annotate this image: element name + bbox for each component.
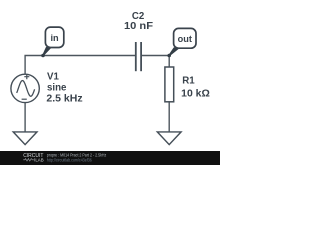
footer logo resistor squiggle xyxy=(23,158,34,161)
svg-text:10 kΩ: 10 kΩ xyxy=(181,88,210,99)
wire junction to R1 top xyxy=(168,56,170,68)
svg-text:sine: sine xyxy=(47,83,67,94)
svg-text:in: in xyxy=(51,33,60,43)
ground left xyxy=(13,132,37,145)
resistor R1 : body xyxy=(165,67,174,102)
voltage source V1 : minus sign xyxy=(22,98,27,100)
svg-text:V1: V1 xyxy=(47,71,59,82)
node out : flag pointer xyxy=(169,48,178,55)
svg-text:2.5 kHz: 2.5 kHz xyxy=(46,94,82,105)
wire top horizontal from V1 to C2 left plate xyxy=(25,56,135,75)
capacitor C2 : right plate xyxy=(140,42,142,71)
voltage source V1 : circle xyxy=(11,74,39,102)
ground right xyxy=(157,132,181,145)
wire V1 bottom to left ground xyxy=(24,103,26,132)
svg-text:LAB: LAB xyxy=(35,157,43,163)
svg-text:http://circuitlab.com/c43ef36: http://circuitlab.com/c43ef36 xyxy=(47,158,92,163)
node out : flag box xyxy=(174,28,196,48)
svg-text:10 nF: 10 nF xyxy=(124,21,153,32)
svg-text:R1: R1 xyxy=(182,75,195,86)
node in : flag pointer xyxy=(43,48,50,56)
voltage source V1 : plus sign xyxy=(24,74,29,79)
wire R1 bottom to right ground xyxy=(168,102,170,132)
wire from C2 right plate to out junction xyxy=(142,55,169,57)
capacitor C2 : left plate xyxy=(135,42,137,71)
svg-text:out: out xyxy=(178,34,192,44)
node in : junction dot xyxy=(41,54,45,58)
voltage source V1 : sine wave xyxy=(17,81,35,97)
footer bar xyxy=(0,151,220,165)
node in : flag box xyxy=(45,27,63,47)
node out : junction dot xyxy=(167,54,171,58)
